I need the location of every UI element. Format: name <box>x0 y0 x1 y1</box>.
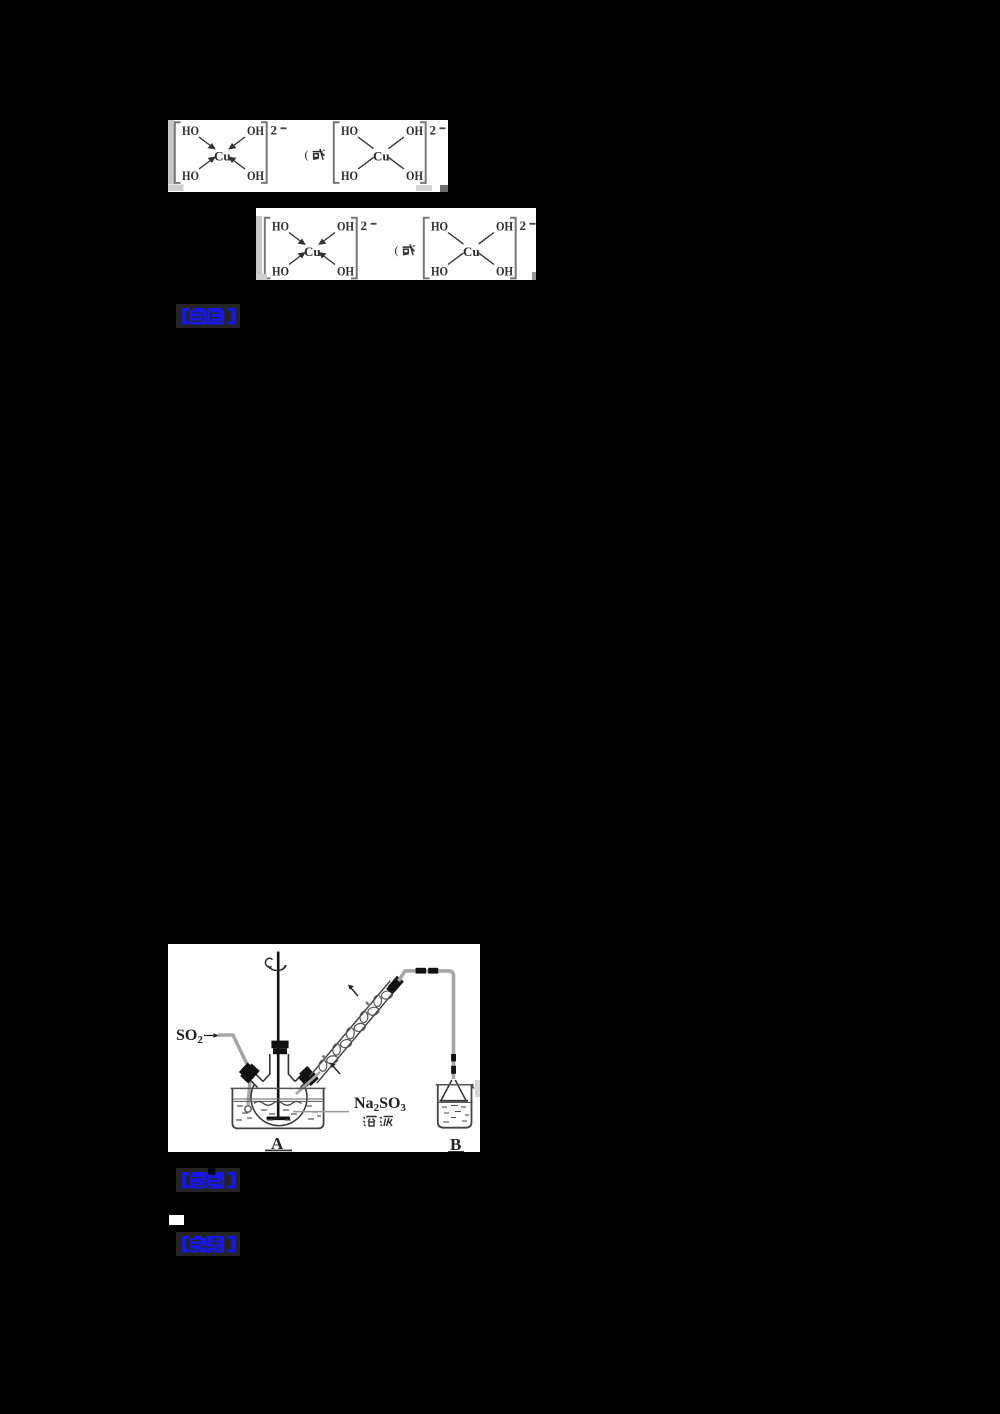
svg-text:Na2SO3: Na2SO3 <box>354 1095 406 1114</box>
svg-text:HO: HO <box>182 168 199 183</box>
svg-text:OH: OH <box>406 123 423 138</box>
svg-text:HO: HO <box>341 123 358 138</box>
svg-text:A: A <box>271 1134 284 1152</box>
svg-text:Cu: Cu <box>373 149 390 164</box>
svg-text:Cu: Cu <box>214 149 231 164</box>
svg-text:OH: OH <box>247 123 264 138</box>
svg-text:2: 2 <box>271 122 278 137</box>
svg-text:HO: HO <box>182 123 199 138</box>
svg-text:SO2: SO2 <box>176 1027 203 1046</box>
svg-text:OH: OH <box>406 168 423 183</box>
svg-text:2: 2 <box>430 122 437 137</box>
svg-text:(: ( <box>305 148 309 162</box>
svg-text:B: B <box>450 1135 461 1152</box>
svg-text:OH: OH <box>247 168 264 183</box>
svg-text:HO: HO <box>341 168 358 183</box>
